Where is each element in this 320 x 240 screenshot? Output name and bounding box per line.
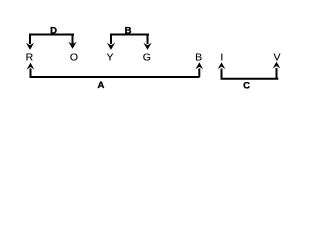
svg-text:V: V <box>273 51 280 63</box>
bracket D (over R and O) <box>26 34 77 50</box>
svg-text:I: I <box>220 51 223 63</box>
svg-text:D: D <box>50 26 57 37</box>
svg-text:C: C <box>243 81 250 92</box>
svg-text:R: R <box>26 51 34 63</box>
svg-text:Y: Y <box>106 51 113 63</box>
svg-text:O: O <box>70 51 78 63</box>
bracket C (under I to V) <box>218 62 281 79</box>
svg-text:A: A <box>97 80 104 91</box>
bracket A (under R to B) <box>27 62 203 77</box>
svg-text:G: G <box>143 51 151 63</box>
svg-text:B: B <box>195 51 202 63</box>
svg-text:B: B <box>125 26 132 37</box>
bracket B (over Y and G) <box>107 34 152 50</box>
